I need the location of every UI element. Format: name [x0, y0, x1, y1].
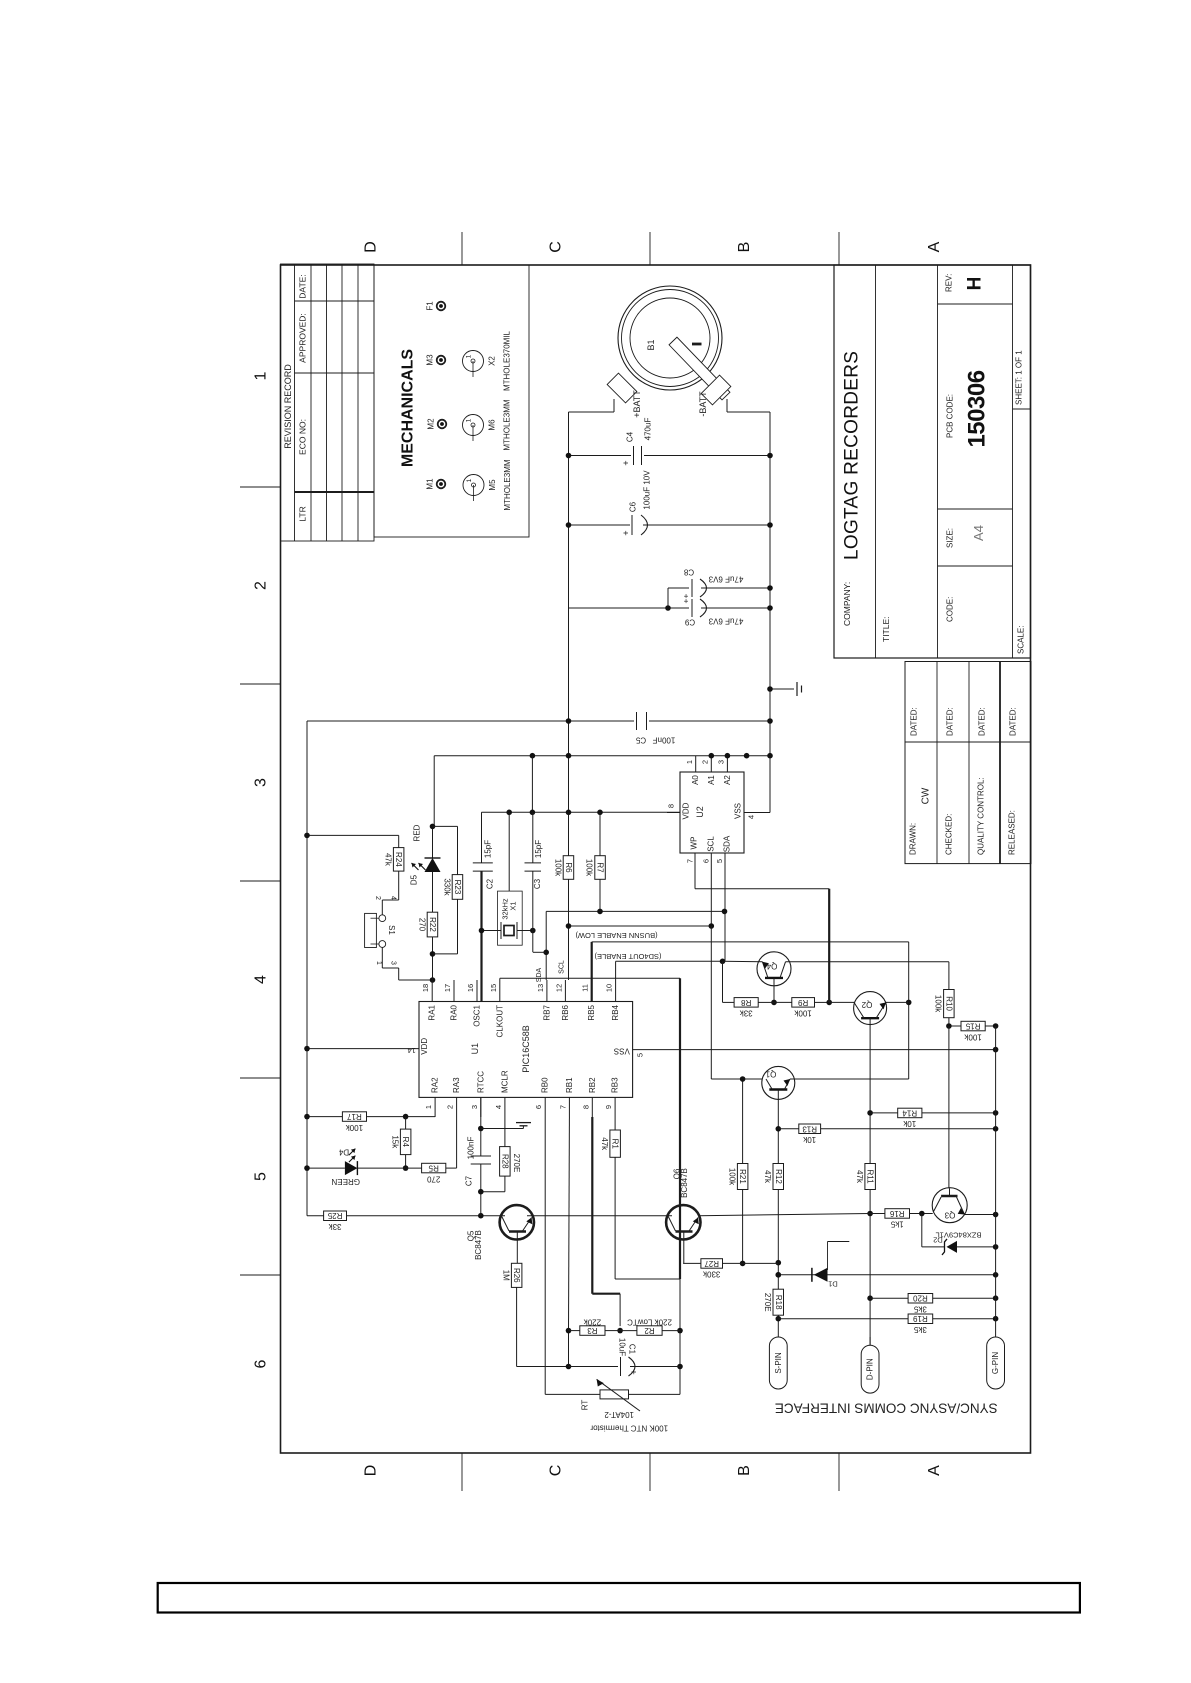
svg-text:Q4: Q4	[766, 962, 777, 971]
resistor R25 33k	[324, 1211, 347, 1221]
svg-text:R22: R22	[428, 917, 437, 932]
svg-text:104AT-2: 104AT-2	[604, 1410, 634, 1419]
svg-text:R26: R26	[512, 1268, 521, 1283]
svg-text:15k: 15k	[390, 1135, 399, 1149]
svg-text:C8: C8	[683, 568, 694, 577]
svg-text:8: 8	[581, 1105, 590, 1109]
svg-text:R13: R13	[802, 1124, 817, 1133]
thermistor RT 100K NTC	[545, 1393, 600, 1395]
svg-text:330k: 330k	[442, 878, 451, 896]
svg-text:47k: 47k	[855, 1170, 864, 1184]
drawing frame border	[281, 265, 1031, 1453]
battery B1 coin cell	[618, 286, 722, 390]
svg-text:RA1: RA1	[428, 1004, 437, 1020]
svg-text:100k: 100k	[345, 1123, 363, 1132]
base rail row (Q5/Q6)	[307, 1215, 324, 1217]
svg-text:R20: R20	[913, 1294, 928, 1303]
svg-text:1: 1	[375, 961, 382, 965]
battery tab +BATT	[607, 373, 637, 403]
svg-text:C1: C1	[628, 1344, 637, 1355]
svg-text:5: 5	[715, 859, 724, 863]
svg-text:1k5: 1k5	[890, 1220, 903, 1229]
svg-text:+: +	[621, 460, 631, 465]
svg-text:100uF 10V: 100uF 10V	[643, 470, 652, 510]
node: A0/A1/A2 row	[434, 755, 770, 757]
svg-text:A: A	[926, 241, 943, 252]
sign-off table DRAWN/CHECKED/QC/RELEASED	[905, 662, 1031, 864]
svg-text:33k: 33k	[739, 1009, 753, 1018]
U1 pin 17 RA0	[453, 980, 455, 1002]
svg-text:1: 1	[466, 354, 473, 358]
svg-text:100nF: 100nF	[467, 1137, 476, 1160]
svg-text:SYNC/ASYNC COMMS INTERFACE: SYNC/ASYNC COMMS INTERFACE	[775, 1401, 998, 1416]
svg-text:15: 15	[489, 984, 498, 992]
capacitor C7 100nF	[480, 1097, 482, 1156]
resistor R17 100k	[307, 1116, 342, 1118]
svg-text:8: 8	[667, 804, 676, 808]
svg-text:6: 6	[253, 1359, 270, 1368]
R10 column down to Q3	[948, 1026, 950, 1188]
resistor R16 1k5	[870, 1213, 885, 1215]
revision record table	[281, 264, 375, 541]
svg-text:150306: 150306	[964, 370, 991, 447]
svg-text:S1: S1	[387, 925, 396, 935]
svg-text:SCALE:: SCALE:	[1017, 626, 1026, 654]
ground symbol at -BATT rail	[770, 688, 794, 690]
capacitor C1 10uF	[569, 1366, 619, 1368]
rotated landscape schematic group	[240, 232, 1031, 1491]
resistor R22 270	[427, 912, 438, 937]
svg-text:1: 1	[466, 418, 473, 422]
footer box	[158, 1583, 1080, 1613]
U1 pin 9 RB3	[614, 1097, 616, 1117]
svg-text:RB6: RB6	[561, 1004, 570, 1020]
svg-text:D4: D4	[338, 1148, 349, 1157]
wire Q6 base to R27	[683, 1240, 685, 1264]
title block	[834, 265, 1031, 658]
svg-text:LOGTAG RECORDERS: LOGTAG RECORDERS	[842, 351, 863, 560]
svg-text:VDD: VDD	[420, 1038, 429, 1055]
capacitor C3 15pF	[532, 812, 534, 863]
mounting hole X2 MTHOLE370MIL	[463, 351, 484, 372]
ground at MCLR	[481, 1128, 505, 1130]
svg-text:RELEASED:: RELEASED:	[1008, 810, 1017, 855]
svg-text:100k: 100k	[727, 1168, 736, 1186]
resistor R28 270E	[504, 1117, 506, 1147]
resistor R19 3k5	[778, 1318, 908, 1320]
svg-text:DRAWN:: DRAWN:	[909, 823, 918, 855]
RB1 net	[568, 1117, 571, 1331]
svg-text:2: 2	[701, 760, 710, 764]
U1 pin 2 RA3	[456, 1097, 458, 1117]
connector S-PIN	[769, 1337, 787, 1389]
svg-text:RB5: RB5	[587, 1004, 596, 1020]
svg-text:QUALITY CONTROL:: QUALITY CONTROL:	[977, 777, 986, 855]
battery clip strip	[669, 337, 730, 400]
svg-text:DATED:: DATED:	[946, 707, 955, 736]
svg-text:270: 270	[426, 1174, 440, 1183]
svg-text:270: 270	[417, 918, 426, 932]
resistor R2 220k LowTC	[620, 1330, 637, 1332]
svg-text:Q1: Q1	[765, 1070, 776, 1079]
svg-text:C2: C2	[486, 878, 495, 889]
resistor R4 15k	[405, 1117, 407, 1130]
svg-text:15pF: 15pF	[484, 840, 493, 858]
resistor R27 330k	[683, 1262, 701, 1264]
svg-text:100k: 100k	[553, 859, 562, 877]
U1 pin 10 RB4	[615, 980, 617, 1002]
svg-text:TITLE:: TITLE:	[881, 616, 891, 642]
svg-text:D: D	[363, 241, 380, 253]
svg-text:SIZE:: SIZE:	[946, 528, 955, 548]
svg-text:100k: 100k	[934, 995, 943, 1013]
SCL net down to Q1	[710, 926, 712, 1079]
U1 pin 6 RB0	[544, 1097, 546, 1117]
svg-text:270E: 270E	[512, 1154, 521, 1173]
LED D5 RED	[432, 826, 434, 858]
SDA net row	[599, 879, 601, 911]
U2 pins 7 6 5 stubs	[694, 853, 696, 889]
svg-text:A: A	[926, 1465, 943, 1476]
mounting hole M5 MTHOLE3MM	[463, 475, 484, 496]
LED D4 GREEN	[307, 1167, 345, 1169]
svg-text:SCL: SCL	[559, 960, 566, 974]
svg-text:RB3: RB3	[611, 1077, 620, 1093]
svg-text:9: 9	[604, 1105, 613, 1109]
capacitor C2 15pF	[481, 812, 483, 863]
svg-text:R24: R24	[394, 852, 403, 867]
U1 pin 7 RB1	[568, 1097, 570, 1117]
svg-text:7: 7	[686, 859, 695, 863]
wire Q3 emitter to G net	[965, 1214, 996, 1216]
svg-text:7: 7	[558, 1105, 567, 1109]
svg-text:10: 10	[605, 984, 614, 992]
svg-text:C5: C5	[635, 736, 646, 745]
battery tab -BATT	[701, 375, 731, 405]
resistor R24 47k	[393, 848, 404, 872]
svg-text:R19: R19	[913, 1314, 928, 1323]
svg-text:D-PIN: D-PIN	[866, 1358, 875, 1380]
svg-text:CLKOUT: CLKOUT	[495, 1005, 504, 1038]
svg-text:PCB CODE:: PCB CODE:	[946, 394, 955, 438]
svg-text:D5: D5	[410, 874, 419, 885]
svg-text:R6: R6	[564, 862, 573, 873]
svg-text:SCL: SCL	[707, 836, 716, 852]
resistor R1 47k	[614, 1117, 616, 1130]
svg-text:R1: R1	[611, 1139, 620, 1150]
svg-text:Q2: Q2	[861, 1000, 872, 1009]
svg-text:220k: 220k	[583, 1318, 601, 1327]
svg-text:M1: M1	[426, 478, 435, 490]
svg-text:GREEN: GREEN	[331, 1177, 360, 1186]
svg-text:A2: A2	[723, 775, 732, 785]
svg-text:16: 16	[466, 984, 475, 992]
svg-text:C3: C3	[533, 878, 542, 889]
svg-text:RED: RED	[413, 824, 422, 841]
svg-text:X1: X1	[509, 901, 518, 910]
RB0 net to thermistor	[544, 1117, 546, 1394]
svg-text:APPROVED:: APPROVED:	[298, 313, 308, 363]
net (SD4OUT ENABLE)	[615, 961, 617, 980]
svg-text:47k: 47k	[383, 853, 392, 867]
resistor R12 47k	[773, 1164, 784, 1190]
svg-text:-BATT: -BATT	[698, 391, 708, 417]
transistor Q2	[854, 992, 887, 1025]
svg-text:VSS: VSS	[734, 803, 743, 819]
svg-text:C4: C4	[626, 431, 635, 442]
wire VDD to R24	[307, 834, 399, 836]
svg-text:R8: R8	[741, 998, 752, 1007]
-BATT rail (portrait px770)	[769, 412, 771, 813]
svg-text:M2: M2	[427, 418, 436, 430]
svg-text:A0: A0	[691, 775, 700, 785]
svg-text:33k: 33k	[328, 1222, 342, 1231]
VDD row py812	[482, 811, 681, 813]
svg-text:1: 1	[253, 371, 270, 380]
zone ticks, portrait-bottom edge (landscape left)	[461, 1453, 463, 1491]
svg-text:RB7: RB7	[542, 1004, 551, 1020]
crystal X1 32kHz	[498, 891, 523, 945]
svg-text:REV:: REV:	[945, 274, 954, 292]
svg-text:PIC16C58B: PIC16C58B	[521, 1025, 531, 1073]
svg-text:VDD: VDD	[682, 802, 691, 819]
svg-text:ECO NO:: ECO NO:	[298, 419, 308, 455]
resistor R18 270E	[773, 1289, 784, 1315]
svg-text:C: C	[548, 241, 565, 253]
wire Q5 base to R26	[516, 1240, 518, 1264]
resistor R26 1M	[511, 1263, 522, 1287]
svg-text:D2: D2	[933, 1236, 943, 1245]
svg-text:DATE:: DATE:	[298, 274, 308, 298]
svg-text:3: 3	[470, 1105, 479, 1109]
svg-text:RTCC: RTCC	[476, 1071, 485, 1093]
svg-text:RA0: RA0	[450, 1004, 459, 1020]
capacitors C8/C9 47uF 6V3 pair	[668, 587, 689, 589]
U1 pin 11 RB5	[591, 980, 593, 1002]
resistor R9 100k	[774, 1001, 792, 1003]
capacitor C5 100nF	[307, 720, 634, 722]
svg-text:13: 13	[536, 984, 545, 992]
svg-text:+BATT: +BATT	[632, 390, 642, 418]
svg-text:OSC1: OSC1	[473, 1004, 482, 1026]
U1 pin 18 RA1	[431, 980, 433, 1002]
svg-text:RT: RT	[580, 1400, 589, 1411]
resistor R3 220k	[569, 1330, 580, 1332]
svg-text:RA2: RA2	[431, 1077, 440, 1093]
svg-text:SDA: SDA	[723, 835, 732, 852]
svg-text:3k5: 3k5	[913, 1325, 926, 1334]
resistor R23 330k branch	[433, 825, 458, 827]
svg-text:CODE:: CODE:	[946, 597, 955, 622]
connector G-PIN	[987, 1337, 1005, 1389]
connector D-PIN	[861, 1345, 879, 1393]
svg-text:R21: R21	[738, 1169, 747, 1184]
svg-text:RB0: RB0	[541, 1077, 550, 1093]
svg-text:+: +	[683, 597, 688, 606]
svg-text:MTHOLE370MIL: MTHOLE370MIL	[503, 330, 512, 391]
svg-text:R14: R14	[902, 1108, 917, 1117]
capacitor C6 100uF 10V	[569, 524, 631, 526]
svg-text:1: 1	[424, 1105, 433, 1109]
svg-text:1M: 1M	[501, 1270, 510, 1281]
svg-text:+: +	[621, 530, 631, 535]
svg-text:6: 6	[534, 1105, 543, 1109]
U1 pin 4 MCLR	[504, 1097, 506, 1117]
transistor Q6 BC847B	[666, 1205, 700, 1239]
svg-text:RB1: RB1	[565, 1077, 574, 1093]
mounting hole M6 MTHOLE3MM	[463, 415, 484, 436]
svg-text:B: B	[736, 242, 753, 253]
mounting pad M2	[438, 420, 447, 429]
svg-text:100K NTC Thermistor: 100K NTC Thermistor	[590, 1424, 668, 1433]
U2 pin8 VDD stub	[667, 812, 680, 814]
svg-text:2: 2	[253, 581, 270, 590]
WP net	[695, 888, 829, 890]
transistor Q4	[757, 952, 791, 986]
svg-text:5: 5	[253, 1172, 270, 1181]
svg-text:R25: R25	[327, 1211, 342, 1220]
svg-text:R15: R15	[965, 1022, 980, 1031]
diode D1	[778, 1274, 995, 1276]
svg-text:47k: 47k	[763, 1170, 772, 1184]
svg-text:MTHOLE3MM: MTHOLE3MM	[503, 459, 512, 510]
U1 pin14 VDD stub	[307, 1048, 419, 1050]
VDD rail down the left (portrait px307)	[306, 721, 308, 1216]
svg-text:3: 3	[717, 760, 726, 764]
svg-text:5: 5	[636, 1053, 645, 1057]
resistor R6 100k	[563, 856, 574, 880]
U1 pin 1 RA2	[434, 1097, 436, 1117]
resistor R7 100k	[595, 856, 606, 880]
svg-text:R12: R12	[774, 1169, 783, 1184]
svg-text:2: 2	[374, 896, 381, 900]
transistor Q1	[762, 1066, 795, 1099]
OSC1 net (thick)	[480, 871, 482, 1001]
mounting pad F1	[437, 302, 446, 311]
svg-text:1: 1	[685, 760, 694, 764]
svg-text:U2: U2	[695, 806, 705, 818]
svg-text:M6: M6	[488, 419, 497, 431]
svg-text:MCLR: MCLR	[500, 1070, 509, 1093]
svg-text:3: 3	[253, 778, 270, 787]
svg-text:SDA: SDA	[536, 967, 543, 982]
svg-text:+: +	[629, 1369, 639, 1374]
wire Q6 emitter to D-net	[699, 1214, 871, 1216]
svg-text:M5: M5	[488, 479, 497, 491]
svg-text:3k5: 3k5	[913, 1305, 926, 1314]
svg-text:A1: A1	[707, 775, 716, 785]
svg-text:RA3: RA3	[452, 1077, 461, 1093]
svg-text:10k: 10k	[902, 1119, 916, 1128]
svg-text:C: C	[548, 1465, 565, 1477]
MECHANICALS box	[374, 265, 529, 537]
zone ticks, portrait-left edge (landscape top)	[240, 486, 281, 488]
svg-text:4: 4	[747, 815, 756, 819]
svg-text:100k: 100k	[585, 859, 594, 877]
svg-text:H: H	[965, 277, 986, 291]
svg-text:R10: R10	[944, 996, 953, 1011]
svg-text:14: 14	[408, 1046, 416, 1055]
Q1 emitter column (S net)	[777, 1099, 779, 1163]
svg-text:15pF: 15pF	[534, 840, 543, 858]
svg-text:R11: R11	[866, 1169, 875, 1184]
svg-text:10k: 10k	[802, 1135, 816, 1144]
resistor R14 10k	[870, 1112, 898, 1114]
mounting pad M3	[437, 356, 446, 365]
svg-text:D: D	[363, 1465, 380, 1477]
zone ticks, portrait-top edge (landscape right)	[461, 232, 463, 265]
resistor R15 100k	[949, 1025, 961, 1027]
wire Q5 emitter to Q6	[527, 1215, 672, 1217]
svg-text:A4: A4	[971, 525, 986, 541]
U1 pin 16 OSC1	[476, 980, 478, 1002]
resistor R11 47k	[865, 1164, 876, 1190]
svg-text:C9: C9	[684, 618, 695, 627]
capacitor C4 470uF	[569, 455, 632, 457]
mounting pad M1	[437, 480, 446, 489]
U2 pin4 VSS stub to -BATT rail	[744, 812, 770, 814]
svg-text:(SD4OUT ENABLE): (SD4OUT ENABLE)	[594, 952, 661, 961]
svg-text:DATED:: DATED:	[910, 707, 919, 736]
svg-text:11: 11	[581, 984, 590, 992]
U1 pin 15 CLKOUT	[499, 980, 501, 1002]
svg-text:47uF 6V3: 47uF 6V3	[708, 575, 743, 584]
svg-text:SHEET: 1 OF 1: SHEET: 1 OF 1	[1015, 350, 1024, 405]
svg-text:100k: 100k	[963, 1032, 981, 1041]
svg-text:17: 17	[443, 984, 452, 992]
+BATT rail (portrait px568.5)	[568, 412, 570, 856]
svg-text:REVISION RECORD: REVISION RECORD	[283, 364, 293, 449]
resistor R10 100k	[948, 962, 950, 990]
resistor R13 10k	[778, 1128, 799, 1130]
svg-text:M3: M3	[426, 354, 435, 366]
svg-text:VSS: VSS	[614, 1047, 630, 1056]
svg-text:12: 12	[554, 984, 563, 992]
svg-text:B: B	[736, 1465, 753, 1476]
svg-text:MTHOLE3MM: MTHOLE3MM	[503, 399, 512, 450]
svg-text:270E: 270E	[763, 1293, 772, 1312]
IC U2 (EEPROM)	[680, 772, 744, 853]
svg-text:X2: X2	[488, 356, 497, 366]
svg-text:47k: 47k	[600, 1137, 609, 1151]
net (BUSNN ENABLE LOW)	[591, 942, 593, 980]
svg-text:4: 4	[389, 896, 396, 900]
U1 pin5 VSS row	[633, 1049, 996, 1051]
svg-text:10uF: 10uF	[618, 1338, 627, 1356]
svg-text:RB2: RB2	[588, 1077, 597, 1093]
svg-text:R16: R16	[889, 1209, 904, 1218]
U1 pin 3 RTCC	[480, 1097, 482, 1117]
RB2 net (thick)	[591, 1117, 593, 1294]
battery minus mark	[692, 343, 702, 346]
svg-text:LTR: LTR	[298, 506, 308, 521]
svg-text:DATED:: DATED:	[978, 707, 987, 736]
U1 pin 12 RB6	[564, 980, 566, 1002]
svg-text:CHECKED:: CHECKED:	[945, 814, 954, 855]
resistor R5 270	[406, 1167, 422, 1169]
wire C3 to pin13 column	[533, 951, 546, 953]
svg-text:R9: R9	[797, 998, 808, 1007]
svg-text:MECHANICALS: MECHANICALS	[400, 349, 417, 468]
D1 hook	[827, 1242, 829, 1271]
svg-text:6: 6	[702, 859, 711, 863]
svg-text:2: 2	[446, 1105, 455, 1109]
svg-text:B1: B1	[646, 339, 656, 350]
resistor R20 3k5	[870, 1297, 908, 1299]
switch S1	[379, 915, 386, 922]
svg-text:100k: 100k	[793, 1009, 811, 1018]
resistor R21 100k	[742, 1079, 744, 1164]
